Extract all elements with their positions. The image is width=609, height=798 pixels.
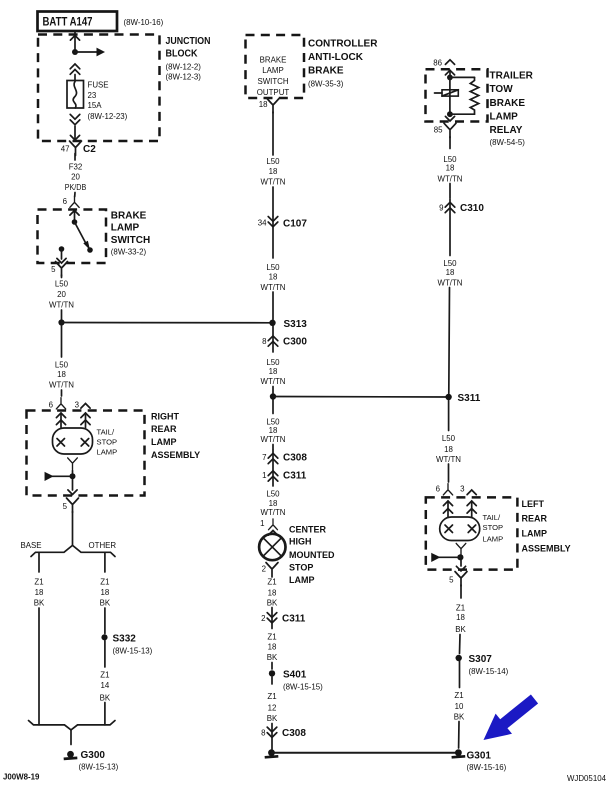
wire horizontal to S311 xyxy=(273,396,449,399)
wire down xyxy=(272,400,274,414)
svg-text:ANTI-LOCK: ANTI-LOCK xyxy=(308,52,364,63)
wire to left rear lamp xyxy=(448,464,450,482)
controller anti-lock brake dashed box xyxy=(246,35,305,98)
wire resistor bottom xyxy=(450,113,475,115)
svg-text:(8W-15-15): (8W-15-15) xyxy=(283,683,323,692)
svg-text:WT/TN: WT/TN xyxy=(438,278,463,287)
pointer arrow to G301 xyxy=(484,695,539,741)
svg-text:(8W-12-2): (8W-12-2) xyxy=(166,63,202,72)
pin chevron at relay bottom edge xyxy=(445,116,454,121)
wire to ground bus xyxy=(271,724,273,750)
splice S401 xyxy=(269,670,275,676)
svg-text:SWITCH: SWITCH xyxy=(257,77,288,86)
wire OTHER branch Z1 18 BK xyxy=(104,552,106,572)
pin chevron at switch bottom edge xyxy=(57,258,66,263)
wire chevron to fuse xyxy=(74,75,76,81)
wire ground bus to G301 xyxy=(272,752,459,754)
svg-text:WT/TN: WT/TN xyxy=(261,508,286,517)
svg-text:BK: BK xyxy=(34,599,45,608)
svg-text:BK: BK xyxy=(455,625,466,634)
svg-text:18: 18 xyxy=(269,273,278,282)
node splice to S311 xyxy=(270,393,276,399)
svg-text:S401: S401 xyxy=(283,670,307,681)
node splice to S313 xyxy=(58,319,64,325)
wire Z1 12 BK xyxy=(271,677,273,684)
wire into switch xyxy=(74,211,76,221)
node lamp junction xyxy=(457,554,463,560)
svg-text:LEFT: LEFT xyxy=(522,499,545,509)
wire below C311 xyxy=(271,608,273,629)
svg-text:6: 6 xyxy=(49,401,54,410)
svg-text:14: 14 xyxy=(101,681,110,690)
svg-text:WT/TN: WT/TN xyxy=(436,455,461,464)
svg-text:23: 23 xyxy=(88,91,97,100)
wire controller to C107 xyxy=(272,112,274,155)
svg-text:(8W-54-5): (8W-54-5) xyxy=(490,138,526,147)
lamp bulb tail/stop right xyxy=(53,428,93,454)
svg-text:8: 8 xyxy=(262,337,267,346)
svg-text:6: 6 xyxy=(63,197,68,206)
svg-text:CENTER: CENTER xyxy=(289,525,327,535)
svg-text:JUNCTION: JUNCTION xyxy=(166,36,211,47)
svg-text:7: 7 xyxy=(262,453,266,462)
svg-text:BK: BK xyxy=(100,599,111,608)
wire to node xyxy=(272,387,274,394)
lamp output fork xyxy=(456,543,466,555)
relay coil xyxy=(442,90,458,96)
ground attach left of bus xyxy=(265,749,279,757)
wire BASE branch down xyxy=(38,608,40,725)
splice S311 xyxy=(445,394,451,400)
svg-text:18: 18 xyxy=(269,499,278,508)
svg-text:5: 5 xyxy=(63,502,68,511)
svg-text:C311: C311 xyxy=(283,471,307,482)
svg-text:Z1: Z1 xyxy=(456,604,465,613)
svg-text:BRAKE: BRAKE xyxy=(260,56,287,65)
svg-text:L50: L50 xyxy=(266,358,280,367)
wire split brace BASE/OTHER xyxy=(31,545,115,556)
switch contact right xyxy=(87,247,93,253)
svg-text:TAIL/: TAIL/ xyxy=(483,513,501,522)
svg-text:WT/TN: WT/TN xyxy=(49,381,74,390)
connector C2 fork xyxy=(70,141,82,156)
svg-text:LAMP: LAMP xyxy=(522,529,548,539)
svg-text:(8W-15-13): (8W-15-13) xyxy=(79,763,119,772)
svg-text:86: 86 xyxy=(433,59,442,68)
svg-text:20: 20 xyxy=(71,173,80,182)
svg-text:1: 1 xyxy=(260,519,264,528)
svg-text:(8W-15-13): (8W-15-13) xyxy=(113,647,153,656)
svg-text:HIGH: HIGH xyxy=(289,537,312,547)
right rear lamp assembly dashed box xyxy=(27,411,145,496)
wire merge brace to G300 xyxy=(29,721,116,730)
wire below C311 xyxy=(272,450,274,486)
svg-text:(8W-35-3): (8W-35-3) xyxy=(308,79,344,88)
fuse F23 element xyxy=(73,81,76,108)
svg-text:(8W-12-23): (8W-12-23) xyxy=(88,112,128,121)
wire to C308 xyxy=(272,445,274,450)
wire BASE branch Z1 18 BK xyxy=(38,552,40,572)
svg-text:18: 18 xyxy=(57,370,66,379)
svg-text:18: 18 xyxy=(456,613,465,622)
svg-text:WT/TN: WT/TN xyxy=(261,435,286,444)
svg-text:20: 20 xyxy=(57,290,66,299)
arrow to other circuits xyxy=(75,51,97,53)
svg-text:18: 18 xyxy=(269,426,278,435)
lamp bulb tail/stop left xyxy=(440,517,480,541)
lamp center high mounted stop xyxy=(259,534,285,560)
connector double chevron above fuse xyxy=(70,64,80,74)
svg-text:18: 18 xyxy=(446,163,455,172)
pin 3 entry chevrons inside box xyxy=(467,501,476,506)
wire Z1 18 BK xyxy=(460,585,462,598)
svg-text:47: 47 xyxy=(61,145,70,154)
svg-text:85: 85 xyxy=(434,126,443,135)
pin chevron at lamp box bottom edge xyxy=(456,566,465,571)
svg-text:CONTROLLER: CONTROLLER xyxy=(308,39,378,50)
wire C300 down xyxy=(272,326,274,352)
svg-text:Z1: Z1 xyxy=(100,578,109,587)
wire to S313 xyxy=(272,292,274,320)
svg-text:BK: BK xyxy=(100,694,111,703)
svg-text:18: 18 xyxy=(35,588,44,597)
left rear lamp assembly dashed box xyxy=(426,497,518,569)
svg-text:ASSEMBLY: ASSEMBLY xyxy=(151,450,200,460)
wire to junction xyxy=(460,556,462,557)
svg-text:8: 8 xyxy=(261,729,266,738)
wire to C310 xyxy=(449,184,451,199)
svg-text:F32: F32 xyxy=(69,163,83,172)
pin chevron at relay top edge xyxy=(445,70,454,75)
pin 6 of brake lamp switch xyxy=(74,193,76,197)
pin 3 entry chevrons inside box xyxy=(81,413,90,418)
coil stub wire xyxy=(435,92,443,94)
wire down to split xyxy=(72,512,74,546)
svg-text:LAMP: LAMP xyxy=(483,535,504,544)
svg-text:Z1: Z1 xyxy=(454,691,463,700)
svg-text:Z1: Z1 xyxy=(34,578,43,587)
svg-text:L50: L50 xyxy=(443,259,457,268)
svg-text:C308: C308 xyxy=(282,728,306,739)
ground G300 xyxy=(64,751,78,759)
svg-text:TRAILER: TRAILER xyxy=(490,70,534,81)
svg-text:S311: S311 xyxy=(458,393,481,404)
svg-text:REAR: REAR xyxy=(151,424,177,434)
svg-text:18: 18 xyxy=(446,268,455,277)
svg-text:18: 18 xyxy=(444,445,453,454)
switch arm xyxy=(75,222,88,246)
svg-text:5: 5 xyxy=(51,265,56,274)
svg-text:15A: 15A xyxy=(88,101,103,110)
trailer tow relay dashed box xyxy=(426,69,488,121)
svg-text:2: 2 xyxy=(261,614,265,623)
wire to S307 xyxy=(459,635,462,654)
svg-text:C308: C308 xyxy=(283,453,307,464)
wire to pin 5 xyxy=(460,560,462,566)
battery feed BATT A147 box xyxy=(38,12,118,32)
wire output contact to pin 5 xyxy=(61,249,63,259)
pin 6 entry chevrons inside box xyxy=(56,413,65,418)
svg-text:SWITCH: SWITCH xyxy=(111,235,150,246)
wire to C107 xyxy=(272,187,274,216)
svg-text:Z1: Z1 xyxy=(267,632,276,641)
connector double chevron below fuse xyxy=(70,114,80,124)
pin 6 entry chevrons inside box xyxy=(443,501,452,506)
node lamp junction xyxy=(70,473,76,479)
svg-text:Z1: Z1 xyxy=(100,671,109,680)
wire through coil xyxy=(449,77,451,114)
svg-text:LAMP: LAMP xyxy=(289,575,315,585)
wire L50 20 WT/TN xyxy=(61,275,63,278)
svg-text:RELAY: RELAY xyxy=(490,125,523,136)
svg-text:C311: C311 xyxy=(282,614,306,625)
svg-text:BK: BK xyxy=(267,653,278,662)
svg-text:3: 3 xyxy=(460,485,465,494)
svg-text:BK: BK xyxy=(267,599,278,608)
svg-text:5: 5 xyxy=(449,576,454,585)
svg-text:LAMP: LAMP xyxy=(490,112,519,123)
wire horizontal to S313 xyxy=(62,322,273,324)
svg-text:LAMP: LAMP xyxy=(97,448,118,457)
wire to G301 xyxy=(458,722,460,749)
svg-text:10: 10 xyxy=(455,702,464,711)
svg-text:REAR: REAR xyxy=(522,514,548,524)
svg-text:G300: G300 xyxy=(81,750,106,761)
svg-text:L50: L50 xyxy=(442,434,456,443)
wire C107 down xyxy=(272,217,274,259)
svg-text:OUTPUT: OUTPUT xyxy=(257,88,290,97)
svg-text:2: 2 xyxy=(262,565,266,574)
svg-text:L50: L50 xyxy=(55,280,69,289)
svg-text:BASE: BASE xyxy=(21,541,42,550)
fuse F23 body xyxy=(67,81,84,109)
wire OTHER branch to S332 xyxy=(104,608,106,634)
wire BATT to junction block xyxy=(74,31,76,49)
svg-text:18: 18 xyxy=(101,588,110,597)
wire to resistor top xyxy=(450,76,475,78)
node junction dot inside junction block xyxy=(72,49,78,55)
svg-text:(8W-33-2): (8W-33-2) xyxy=(111,248,147,257)
svg-text:L50: L50 xyxy=(266,263,280,272)
svg-text:ASSEMBLY: ASSEMBLY xyxy=(522,544,571,554)
svg-text:STOP: STOP xyxy=(483,523,504,532)
wire C310 down xyxy=(449,199,451,256)
svg-text:G301: G301 xyxy=(467,751,492,762)
svg-text:L50: L50 xyxy=(266,157,280,166)
svg-text:34: 34 xyxy=(258,219,267,228)
svg-text:Z1: Z1 xyxy=(267,692,276,701)
svg-text:C2: C2 xyxy=(83,144,96,155)
splice S313 xyxy=(269,320,275,326)
svg-text:6: 6 xyxy=(436,485,441,494)
svg-text:18: 18 xyxy=(268,642,277,651)
switch contact output xyxy=(59,246,65,252)
wire to splice node xyxy=(61,310,63,320)
svg-text:(8W-12-3): (8W-12-3) xyxy=(166,72,202,81)
svg-text:C310: C310 xyxy=(460,203,484,214)
splice S332 xyxy=(101,634,107,640)
svg-text:LAMP: LAMP xyxy=(151,437,177,447)
wire into relay xyxy=(449,70,451,77)
pin chevron at junction block bottom edge xyxy=(70,135,79,140)
svg-text:Z1: Z1 xyxy=(267,577,276,586)
svg-text:TOW: TOW xyxy=(490,84,514,95)
svg-text:(8W-15-16): (8W-15-16) xyxy=(467,763,507,772)
pin chevron at junction block top edge xyxy=(70,36,79,41)
wire down L50 18 WT/TN xyxy=(61,326,63,358)
svg-text:WT/TN: WT/TN xyxy=(261,283,286,292)
wire to pin 5 xyxy=(72,479,74,490)
junction block J1 dashed box xyxy=(38,35,160,142)
svg-text:(8W-10-16): (8W-10-16) xyxy=(124,18,164,27)
wire fuse to C2 xyxy=(74,126,76,139)
svg-text:BATT A147: BATT A147 xyxy=(43,17,93,29)
wire long to S311 xyxy=(448,288,451,394)
svg-text:WT/TN: WT/TN xyxy=(49,301,74,310)
svg-text:LAMP: LAMP xyxy=(111,223,140,234)
wire Z1 10 BK xyxy=(459,661,461,687)
wire Z1 14 BK xyxy=(104,641,106,668)
svg-text:PK/DB: PK/DB xyxy=(65,183,87,192)
svg-text:S332: S332 xyxy=(113,634,137,645)
svg-text:BRAKE: BRAKE xyxy=(111,210,147,221)
svg-text:STOP: STOP xyxy=(97,438,118,447)
svg-text:3: 3 xyxy=(75,401,80,410)
arrow to tail lamp circuit xyxy=(52,475,73,477)
svg-text:S313: S313 xyxy=(284,319,308,330)
node relay bottom xyxy=(447,111,453,117)
svg-text:TAIL/: TAIL/ xyxy=(97,428,115,437)
pin chevron at switch top edge xyxy=(70,211,79,216)
wire F32 20 PK/DB xyxy=(74,154,76,161)
wire S311 down xyxy=(448,400,450,430)
svg-text:(8W-15-14): (8W-15-14) xyxy=(469,667,509,676)
svg-text:18: 18 xyxy=(259,100,268,109)
svg-text:L50: L50 xyxy=(266,490,280,499)
svg-text:L50: L50 xyxy=(55,361,69,370)
svg-text:BRAKE: BRAKE xyxy=(308,65,344,76)
svg-text:STOP: STOP xyxy=(289,563,313,573)
splice S307 xyxy=(456,655,462,661)
svg-text:WT/TN: WT/TN xyxy=(438,174,463,183)
svg-text:BLOCK: BLOCK xyxy=(166,49,199,60)
resistor relay coil suppression xyxy=(470,77,478,114)
wire OTHER branch down xyxy=(104,703,106,725)
arrow to tail lamp circuit xyxy=(439,556,461,558)
svg-text:OTHER: OTHER xyxy=(89,541,117,550)
switch common contact xyxy=(72,219,78,225)
svg-text:C300: C300 xyxy=(283,337,307,348)
lamp output fork xyxy=(68,458,78,470)
svg-text:18: 18 xyxy=(268,589,277,598)
svg-text:12: 12 xyxy=(268,703,277,712)
svg-text:18: 18 xyxy=(269,367,278,376)
svg-text:RIGHT: RIGHT xyxy=(151,412,180,422)
svg-text:BRAKE: BRAKE xyxy=(490,98,526,109)
wire to junction xyxy=(72,471,74,474)
svg-text:C107: C107 xyxy=(283,219,307,230)
svg-text:BK: BK xyxy=(454,712,465,721)
svg-text:WT/TN: WT/TN xyxy=(261,178,286,187)
svg-text:S307: S307 xyxy=(469,654,493,665)
svg-text:WJD05104: WJD05104 xyxy=(567,774,607,783)
svg-text:FUSE: FUSE xyxy=(88,81,109,90)
svg-text:WT/TN: WT/TN xyxy=(261,377,286,386)
svg-text:BK: BK xyxy=(267,714,278,723)
wire L50 18 WT/TN xyxy=(449,137,451,149)
wire stem to G300 xyxy=(70,730,72,745)
svg-text:J00W8-19: J00W8-19 xyxy=(3,773,40,782)
ground G301 xyxy=(452,749,466,757)
brake lamp switch S1 dashed box xyxy=(38,210,107,264)
svg-text:18: 18 xyxy=(269,167,278,176)
wire to S401 xyxy=(271,663,273,670)
pin chevron at lamp box bottom edge xyxy=(68,490,77,495)
svg-text:9: 9 xyxy=(439,204,444,213)
svg-text:MOUNTED: MOUNTED xyxy=(289,550,335,560)
svg-text:LAMP: LAMP xyxy=(262,66,284,75)
wire to right rear lamp xyxy=(61,390,63,396)
node relay top xyxy=(447,75,453,81)
svg-text:1: 1 xyxy=(262,471,266,480)
